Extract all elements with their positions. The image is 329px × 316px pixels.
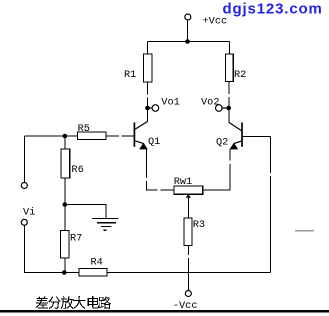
wire rail to R1: [147, 42, 149, 55]
node junction dot R6-R7-ground: [63, 202, 68, 207]
svg-text:Vo1: Vo1: [161, 96, 180, 108]
node junction dot base-R6: [63, 134, 68, 139]
resistor R1: [144, 54, 153, 82]
svg-text:R6: R6: [71, 164, 83, 176]
svg-text:Rw1: Rw1: [174, 176, 193, 188]
terminal Vo1: [147, 107, 152, 109]
transistor Q2: [229, 122, 242, 149]
wire Vo1 node to Q1 collector: [147, 108, 149, 122]
wire rail to R2: [229, 42, 231, 55]
svg-text:Q1: Q1: [148, 136, 160, 148]
wire Rw1 right to Q2 emitter: [203, 149, 231, 190]
wire node to R7: [64, 205, 66, 231]
wire gap artifacts: [119, 94, 272, 258]
wire Vo2 node to Q2 collector: [228, 108, 230, 123]
terminal Vo2: [222, 107, 227, 109]
terminal +Vcc: [185, 14, 191, 20]
node junction dot bottom rail: [62, 270, 67, 275]
wire corner down to Vi upper terminal: [24, 136, 26, 183]
svg-text:R4: R4: [91, 257, 103, 269]
terminal -Vcc: [185, 291, 191, 297]
wire R1 to node Vo1: [147, 82, 149, 108]
wire node to R6: [64, 136, 66, 149]
svg-text:R7: R7: [70, 233, 82, 245]
wire R7 to bottom rail: [64, 258, 66, 273]
svg-text:+Vcc: +Vcc: [203, 16, 228, 28]
wire Q1 emitter down and to Rw1 left: [147, 149, 175, 190]
Rw1 wiper arrow: [186, 194, 191, 198]
svg-text:dgjs123.com: dgjs123.com: [223, 1, 323, 18]
terminal Vi lower: [21, 219, 27, 225]
wire node to ground symbol: [65, 205, 106, 219]
title 差分放大电路: [36, 296, 111, 309]
node Vo2 junction dot: [226, 106, 231, 111]
wire bottom rail R4 to right vertical: [107, 272, 271, 274]
transistor Q1: [134, 121, 147, 149]
wire Q2 base to right vertical: [243, 136, 271, 138]
resistor R4: [79, 268, 107, 276]
wire right vertical down to bottom rail: [270, 137, 272, 273]
svg-text:R2: R2: [234, 69, 246, 81]
resistor R5: [78, 132, 107, 139]
svg-text:R1: R1: [124, 69, 136, 81]
svg-text:Q2: Q2: [216, 136, 228, 148]
resistor R2: [225, 54, 233, 82]
svg-text:R3: R3: [193, 219, 205, 231]
node junction dot on top rail: [185, 39, 190, 44]
resistor R6: [61, 149, 70, 178]
wire R2 to node Vo2: [228, 82, 230, 109]
terminal Vi upper: [21, 183, 27, 189]
potentiometer Rw1: [174, 186, 203, 194]
svg-text:Vi: Vi: [23, 206, 35, 218]
resistor R7: [61, 231, 70, 259]
wire R5 to Q1 base: [106, 135, 134, 137]
artifact gray line: [295, 230, 314, 232]
wire R3 down to -Vcc terminal: [187, 246, 189, 291]
wire top rail: [148, 41, 230, 43]
svg-text:Vo2: Vo2: [201, 96, 220, 108]
wire R6 to ground node: [64, 178, 66, 205]
resistor R3: [184, 218, 192, 246]
wire +Vcc down to top rail: [187, 21, 189, 42]
svg-text:R5: R5: [78, 123, 90, 135]
wire Vi lower down to bottom rail: [25, 226, 80, 273]
node Vo1 junction dot: [145, 106, 150, 111]
ground: [92, 219, 119, 231]
wire wiper to R3: [187, 197, 189, 219]
wire left rail to R5: [25, 135, 78, 137]
